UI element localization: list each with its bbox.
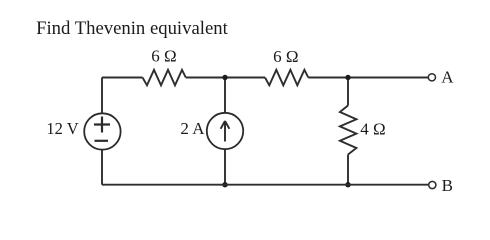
svg-text:A: A: [441, 68, 454, 87]
voltage source V1 circle: [84, 113, 120, 149]
svg-text:2 A: 2 A: [180, 119, 205, 138]
terminal B open circle: [429, 181, 436, 188]
svg-text:B: B: [442, 176, 453, 195]
arrow up inside current source: [221, 121, 230, 142]
plus sign: [94, 117, 110, 133]
terminal A open circle: [428, 74, 435, 81]
svg-text:6 Ω: 6 Ω: [151, 47, 176, 66]
svg-text:6 Ω: 6 Ω: [273, 47, 298, 66]
resistor R1 6ohm zigzag: [143, 70, 186, 86]
current source I1 circle: [207, 113, 243, 149]
wire: left vertical top (corner to source): [101, 78, 103, 114]
svg-text:12 V: 12 V: [46, 119, 78, 138]
minus sign: [95, 140, 109, 142]
wire: top middle (R1 to R2) through node: [186, 77, 265, 79]
resistor R3 4ohm vertical zigzag: [340, 106, 357, 155]
node dot top-middle: [222, 75, 227, 80]
wire: middle vertical bottom (current source to bottom wire): [224, 149, 226, 185]
resistor R2 6ohm zigzag: [265, 70, 308, 86]
node dot bottom-right: [345, 182, 350, 187]
wire: top right (R2 to terminal A): [308, 77, 428, 79]
wire: top-left horizontal (left corner to R1): [102, 77, 143, 79]
wire: left vertical bottom (source to bottom wire): [101, 150, 103, 185]
wire: right branch vertical bottom (R3 to bottom wire): [347, 155, 349, 185]
wire: bottom horizontal (left corner to terminal B): [102, 184, 429, 186]
wire: right branch vertical top (node to R3): [347, 78, 349, 106]
wire: middle vertical top (node to current source): [224, 78, 226, 114]
node dot top-right: [345, 75, 350, 80]
node dot bottom-middle: [222, 182, 227, 187]
svg-text:4 Ω: 4 Ω: [360, 120, 385, 139]
svg-text:Find Thevenin equivalent: Find Thevenin equivalent: [36, 18, 228, 39]
